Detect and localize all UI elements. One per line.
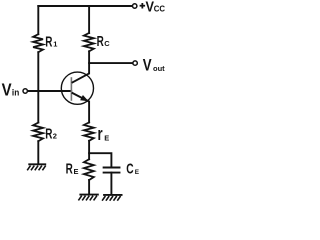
svg-text:1: 1 bbox=[53, 40, 57, 49]
svg-text:2: 2 bbox=[53, 132, 57, 141]
svg-text:V: V bbox=[143, 57, 152, 74]
svg-text:V: V bbox=[2, 80, 12, 99]
capacitor CE bottom plate bbox=[104, 172, 120, 174]
terminal Vout bbox=[133, 61, 137, 65]
transistor Q1 emitter lead bbox=[72, 93, 89, 102]
svg-text:CC: CC bbox=[154, 5, 166, 14]
svg-text:R: R bbox=[97, 33, 104, 49]
svg-text:C: C bbox=[126, 160, 133, 178]
svg-text:R: R bbox=[45, 126, 52, 142]
svg-text:R: R bbox=[66, 161, 73, 177]
svg-text:E: E bbox=[74, 167, 79, 176]
svg-text:in: in bbox=[12, 87, 19, 97]
resistor R2 bbox=[33, 123, 43, 142]
terminal +Vcc bbox=[133, 4, 137, 8]
wire RE bottom to ground bbox=[88, 180, 90, 194]
wire left branch vertical: rail down to R1 bbox=[37, 6, 39, 34]
resistor RE bbox=[84, 159, 94, 180]
wire R1 bottom to R2 top (through Vin node cross) bbox=[37, 52, 39, 122]
ground below RE bbox=[78, 195, 98, 201]
svg-text:E: E bbox=[104, 134, 109, 143]
wire emitter vertical down to rE bbox=[88, 102, 90, 123]
svg-text:R: R bbox=[45, 34, 52, 50]
wire node E branch to capacitor CE bbox=[89, 153, 111, 166]
transistor Q1 circle bbox=[61, 72, 93, 104]
wire rE bottom to node E bbox=[88, 141, 90, 159]
resistor R1 bbox=[33, 34, 43, 52]
terminal Vin bbox=[23, 89, 27, 93]
wire top supply rail from R1 top to RC top to +Vcc terminal bbox=[38, 5, 132, 7]
ground below R2 bbox=[27, 164, 46, 170]
wire R2 bottom to ground bbox=[37, 141, 39, 163]
wire RC bottom through Vout node to collector bbox=[88, 51, 90, 73]
svg-text:C: C bbox=[104, 39, 110, 48]
wire Vout tap bbox=[89, 62, 133, 64]
wire RC branch: rail down to RC bbox=[88, 6, 90, 33]
transistor Q1 base bar bbox=[70, 77, 72, 101]
wire Vin lead to base bbox=[28, 90, 72, 92]
transistor Q1 collector lead bbox=[72, 73, 89, 82]
svg-text:E: E bbox=[135, 169, 140, 176]
transistor Q1 emitter arrowhead bbox=[80, 95, 89, 101]
ground below CE bbox=[102, 195, 122, 201]
resistor rE bbox=[84, 122, 94, 140]
capacitor CE top plate bbox=[104, 167, 120, 169]
svg-text:out: out bbox=[153, 64, 165, 73]
resistor RC bbox=[84, 33, 94, 51]
svg-text:r: r bbox=[98, 124, 103, 145]
label +Vcc plus sign bbox=[140, 3, 146, 9]
wire CE bottom to ground bbox=[110, 173, 112, 195]
